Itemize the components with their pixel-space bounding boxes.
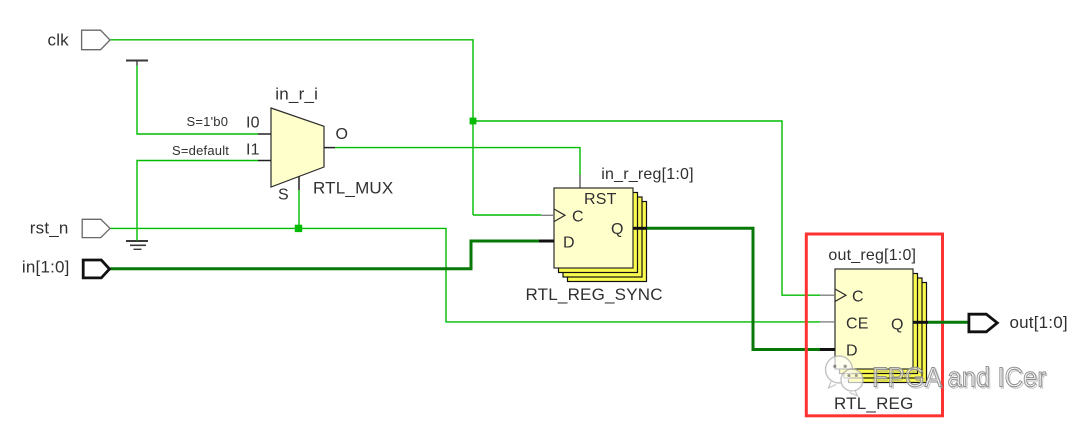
pin stub C (in_r_reg) [541, 214, 554, 216]
watermark text FPGA and ICer [872, 362, 1047, 394]
svg-text:Q: Q [891, 317, 904, 334]
svg-text:S=1'b0: S=1'b0 [187, 114, 229, 129]
highlight box (red) around out_reg [806, 234, 942, 416]
svg-text:out[1:0]: out[1:0] [1010, 313, 1068, 332]
svg-text:in_r_i: in_r_i [275, 84, 318, 103]
svg-text:C: C [852, 289, 864, 306]
svg-text:RTL_REG: RTL_REG [834, 394, 914, 413]
svg-text:in[1:0]: in[1:0] [22, 258, 70, 277]
wire mux O to in_r_reg RST [335, 148, 580, 175]
pin stub I1 [258, 160, 271, 162]
mux in_r_i (RTL_MUX) [271, 108, 324, 187]
svg-text:I1: I1 [246, 142, 260, 159]
svg-text:CE: CE [846, 315, 869, 332]
wire bus in_r_reg Q to out_reg D (thick) [647, 228, 821, 349]
junction clk at (473,121) [470, 118, 477, 125]
svg-text:FPGA and ICer: FPGA and ICer [872, 362, 1046, 393]
pin stub CE (out_reg) [820, 321, 835, 323]
wire gnd to mux I1 [137, 161, 258, 241]
svg-text:O: O [336, 126, 349, 143]
ground symbol [126, 241, 148, 249]
pin stub Q (out_reg, bus) [913, 321, 928, 324]
watermark logo (chat bubbles) [826, 356, 864, 396]
pin stub I0 [258, 133, 271, 135]
pin stub D (in_r_reg, bus) [539, 240, 554, 243]
svg-text:S: S [278, 187, 289, 204]
register in_r_reg[1:0] stack layers [559, 193, 647, 282]
wire bus out_reg Q to out port (thick) [928, 321, 968, 324]
junction rst_n / mux S at (298.4,228.4) [295, 225, 302, 232]
svg-text:RTL_REG_SYNC: RTL_REG_SYNC [526, 285, 663, 304]
clock triangle out_reg C [835, 289, 846, 302]
pin stub O [324, 147, 335, 149]
pin stub C (out_reg) [820, 294, 835, 296]
wire bus in[1:0] to in_r_reg D (thick) [111, 241, 540, 269]
svg-text:I0: I0 [246, 115, 260, 132]
pin stub D (out_reg, bus) [820, 348, 835, 351]
svg-text:C: C [572, 209, 584, 226]
pin stub S [298, 177, 300, 191]
svg-text:in_r_reg[1:0]: in_r_reg[1:0] [601, 166, 693, 183]
register in_r_reg[1:0] body [554, 188, 633, 268]
svg-text:out_reg[1:0]: out_reg[1:0] [828, 247, 916, 264]
register out_reg[1:0] stack layers [840, 274, 927, 383]
svg-text:Q: Q [611, 221, 624, 238]
input port clk [82, 30, 110, 50]
pin stub Q (in_r_reg, bus) [633, 227, 647, 230]
svg-text:RST: RST [584, 191, 617, 208]
pin stub RST [579, 175, 581, 189]
svg-text:D: D [563, 235, 575, 252]
wire clk net (port to elbow, down, branches) [111, 40, 821, 295]
register out_reg[1:0] body [835, 269, 913, 369]
svg-text:RTL_MUX: RTL_MUX [313, 179, 393, 198]
clock triangle in_r_reg C [554, 209, 565, 222]
output port out[1:0] (bus, thick) [969, 314, 997, 332]
input port in[1:0] (bus, thick) [83, 260, 109, 278]
svg-text:clk: clk [48, 30, 70, 49]
svg-text:D: D [846, 343, 858, 360]
input port rst_n [82, 219, 110, 237]
svg-text:rst_n: rst_n [30, 218, 69, 237]
wire rst_n net [111, 190, 821, 322]
power symbol (const for I0) [126, 61, 148, 66]
svg-text:S=default: S=default [172, 143, 229, 158]
wire const0 to mux I0 [137, 66, 258, 135]
